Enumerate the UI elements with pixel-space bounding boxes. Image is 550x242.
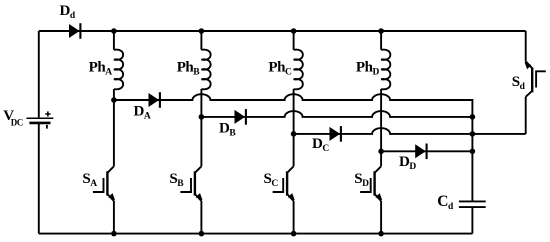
wire SD emitter to bottom rail <box>380 201 382 234</box>
node D top (dot) <box>378 28 384 34</box>
svg-text:SD: SD <box>354 171 369 189</box>
node bus-DD junction (dot) <box>470 149 476 155</box>
node SD bottom (dot) <box>378 231 384 237</box>
node bus-DB junction (dot) <box>470 114 476 120</box>
svg-text:DC: DC <box>11 117 23 127</box>
inductor PhC <box>294 50 303 90</box>
inductor PhB <box>201 50 210 90</box>
svg-text:DC: DC <box>312 136 329 154</box>
node DB anode (dot) <box>199 114 205 120</box>
svg-text:Dd: Dd <box>60 3 76 21</box>
node SB bottom (dot) <box>199 231 205 237</box>
node B top (dot) <box>199 28 205 34</box>
transistor SC (IGBT) <box>273 166 295 201</box>
wire Sd leg down and left to bus <box>525 97 527 134</box>
diode DD <box>415 144 426 160</box>
capacitor Cd <box>459 201 486 207</box>
wire phase D upper stub <box>380 31 382 50</box>
wire bottom rail <box>39 233 473 235</box>
wire phase C upper stub <box>293 31 295 50</box>
svg-text:PhB: PhB <box>177 60 201 78</box>
node bus-DC junction (dot) <box>470 131 476 137</box>
wire Sd upper stub from top rail <box>525 31 527 61</box>
svg-text:SB: SB <box>169 171 184 189</box>
svg-text:DB: DB <box>219 121 236 139</box>
inductor PhA <box>114 50 123 90</box>
wire DC line with hop over leg D, through bus to Sd leg <box>294 128 526 134</box>
node SA bottom (dot) <box>111 231 117 237</box>
svg-text:PhA: PhA <box>89 60 113 78</box>
node C top (dot) <box>291 28 297 34</box>
battery Vdc <box>27 111 54 128</box>
wire SB emitter to bottom rail <box>200 201 202 234</box>
transistor SA (IGBT) <box>93 166 115 201</box>
wire DA line with hops over legs B,C,D then down right bus <box>114 94 473 201</box>
node DD anode (dot) <box>378 149 384 155</box>
wire phase A leg (coil bottom to switch) <box>113 89 115 166</box>
wire phase A upper stub <box>113 31 115 50</box>
wire phase D leg (coil bottom to switch) <box>380 89 382 166</box>
inductor PhD <box>381 50 390 90</box>
wire top rail <box>39 30 526 32</box>
svg-text:Cd: Cd <box>437 193 454 212</box>
wire left leg upper (Vdc to top rail) <box>38 31 40 117</box>
node SC bottom (dot) <box>291 231 297 237</box>
svg-text:SA: SA <box>82 171 97 189</box>
wire phase C leg (coil bottom to switch) <box>293 89 295 166</box>
wire left leg lower (Vdc to bottom rail) <box>38 124 40 234</box>
transistor Sd (IGBT, rotated 180) <box>525 61 546 97</box>
transistor SD (IGBT) <box>360 166 382 201</box>
wire phase B leg (coil bottom to switch) <box>200 89 202 166</box>
node DC anode (dot) <box>291 131 297 137</box>
svg-text:DD: DD <box>399 154 416 172</box>
diode DC <box>330 126 341 142</box>
wire SC emitter to bottom rail <box>293 201 295 234</box>
wire phase B upper stub <box>200 31 202 50</box>
node DA anode (dot) <box>111 97 117 103</box>
wire SA emitter to bottom rail <box>113 201 115 234</box>
svg-text:DA: DA <box>134 103 151 121</box>
svg-text:PhD: PhD <box>356 60 380 78</box>
diode DB <box>235 109 246 125</box>
wire DD line to right bus <box>381 150 472 152</box>
wire Cd bottom leg <box>471 207 473 234</box>
diode Dd <box>69 23 80 39</box>
svg-text:PhC: PhC <box>268 60 292 78</box>
transistor SB (IGBT) <box>180 166 202 201</box>
svg-text:SC: SC <box>263 171 278 189</box>
node A top (dot) <box>111 28 117 34</box>
diode DA <box>149 92 160 108</box>
wire DB line with hops over legs C,D to right bus <box>201 111 472 117</box>
svg-text:Sd: Sd <box>512 74 526 92</box>
